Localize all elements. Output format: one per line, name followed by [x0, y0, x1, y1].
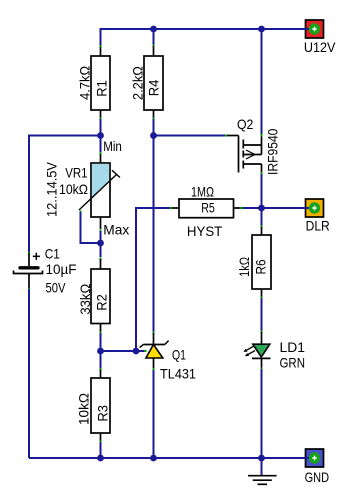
label C1 voltage 50V — [46, 280, 67, 296]
LED LD1 — [244, 332, 271, 370]
wire Min to C1 branch — [28, 136, 101, 255]
svg-text:10kΩ: 10kΩ — [76, 393, 92, 425]
terminal GND — [304, 449, 324, 467]
svg-text:VR1: VR1 — [65, 165, 87, 181]
label VR1 ref — [65, 165, 87, 181]
junction Min node — [97, 132, 104, 139]
svg-text:TL431: TL431 — [160, 366, 196, 382]
label R3 value 10kΩ — [76, 393, 92, 425]
svg-text:U12V: U12V — [304, 39, 336, 55]
label R1 value 4.7kΩ — [76, 66, 92, 100]
svg-text:2.2kΩ: 2.2kΩ — [129, 66, 145, 100]
svg-text:HYST: HYST — [187, 223, 223, 239]
junction bottom Q1 — [150, 455, 157, 462]
svg-text:4.7kΩ: 4.7kΩ — [76, 66, 92, 100]
wire R2 bottom to R3 — [100, 324, 102, 379]
svg-text:Q2: Q2 — [237, 116, 254, 132]
label Max — [103, 222, 129, 238]
potentiometer VR1 — [79, 163, 120, 217]
wire Q2 drain top — [261, 29, 263, 137]
wire VR1 bottom to R2 — [100, 217, 102, 269]
svg-text:GND: GND — [305, 469, 330, 485]
label R5 value 1MΩ — [191, 184, 214, 200]
label GND — [305, 469, 330, 485]
svg-text:R4: R4 — [146, 80, 162, 97]
resistor R5 — [172, 199, 243, 218]
label VR1 value 10kΩ — [59, 181, 88, 197]
label U12V — [304, 39, 336, 55]
label R3 ref — [94, 405, 110, 422]
wire R6 bottom to LED — [261, 289, 263, 333]
terminal U12V — [304, 20, 324, 38]
svg-text:LD1: LD1 — [280, 339, 306, 355]
junction Max node — [97, 240, 104, 247]
label R1 ref — [94, 80, 110, 97]
label Q2 ref — [237, 116, 254, 132]
wire R5 to hysteresis node — [136, 207, 173, 348]
resistor R4 — [144, 56, 163, 110]
terminal DLR — [304, 199, 324, 217]
label Min — [103, 138, 122, 154]
wire DLR node to R6 — [261, 208, 263, 235]
wire DLR node to terminal — [262, 207, 306, 209]
wire bottom bus — [29, 457, 305, 459]
svg-text:50V: 50V — [46, 280, 67, 296]
label LD1 value GRN — [280, 355, 306, 371]
svg-text:C1: C1 — [45, 246, 60, 262]
svg-text:R6: R6 — [253, 259, 269, 274]
svg-text:GRN: GRN — [280, 355, 306, 371]
wire R3 bottom — [100, 433, 102, 458]
resistor R6 — [252, 235, 271, 289]
junction bottom LED — [258, 455, 265, 462]
svg-text:10kΩ: 10kΩ — [59, 181, 88, 197]
label LD1 ref — [280, 339, 306, 355]
wire VR1 wiper — [80, 211, 101, 244]
svg-text:1MΩ: 1MΩ — [191, 184, 214, 200]
svg-text:Min: Min — [103, 138, 122, 154]
wire R5 right to DLR node — [243, 207, 262, 209]
wire R4 bottom to Q1 cathode — [153, 110, 155, 345]
transistor Q2 — [239, 136, 262, 173]
svg-text:IRF9540: IRF9540 — [265, 128, 281, 175]
svg-text:R1: R1 — [94, 80, 110, 97]
label Q1 value TL431 — [160, 366, 196, 382]
label R6 value 1kΩ — [236, 257, 252, 277]
junction gate node — [150, 132, 157, 139]
wire R1 bottom to VR1 — [100, 110, 102, 163]
wire gate — [154, 135, 239, 137]
svg-text:DLR: DLR — [306, 218, 330, 234]
wire ref node to Q1 — [101, 350, 147, 352]
shunt regulator Q1 TL431 — [140, 341, 169, 371]
label C1 ref — [45, 246, 60, 262]
svg-text:R3: R3 — [94, 405, 110, 422]
label R6 ref — [253, 259, 269, 274]
label Q1 ref — [172, 347, 186, 363]
label Q2 value IRF9540 — [265, 128, 281, 175]
label VR1 range 12..14.5V — [44, 161, 60, 217]
label HYST — [187, 223, 223, 239]
junction top R4 — [150, 26, 157, 33]
wire Q1 anode to ground bus — [153, 370, 155, 458]
svg-text:10µF: 10µF — [46, 261, 77, 277]
svg-text:R5: R5 — [201, 200, 215, 216]
junction ref node — [97, 348, 104, 355]
svg-text:12..14.5V: 12..14.5V — [44, 161, 60, 217]
label R5 ref — [201, 200, 215, 216]
junction hysteresis node — [133, 348, 140, 355]
wire top bus — [101, 28, 306, 30]
resistor R1 — [91, 56, 110, 110]
junction bottom R3 — [97, 455, 104, 462]
label C1 value 10uF — [46, 261, 77, 277]
junction top Q2 — [258, 26, 265, 33]
label R4 ref — [146, 80, 162, 97]
resistor R2 — [91, 269, 110, 324]
wire Q2 source to DLR node — [261, 172, 263, 208]
svg-text:R2: R2 — [94, 294, 110, 311]
junction DLR node — [258, 205, 265, 212]
ground symbol — [248, 458, 277, 484]
svg-text:33kΩ: 33kΩ — [77, 284, 93, 315]
label R2 ref — [94, 294, 110, 311]
wire R1 top — [100, 28, 102, 56]
wire R4 top — [153, 29, 155, 56]
resistor R3 — [91, 378, 110, 433]
svg-text:Q1: Q1 — [172, 347, 186, 363]
label R4 value 2.2kΩ — [129, 66, 145, 100]
label C1 plus — [33, 253, 40, 260]
svg-text:Max: Max — [103, 222, 129, 238]
wire C1 bottom — [28, 289, 30, 458]
capacitor C1 — [14, 254, 43, 291]
label R2 value 33kΩ — [77, 284, 93, 315]
wire LED cathode to ground bus — [261, 369, 263, 458]
svg-text:1kΩ: 1kΩ — [236, 257, 252, 277]
label DLR — [306, 218, 330, 234]
